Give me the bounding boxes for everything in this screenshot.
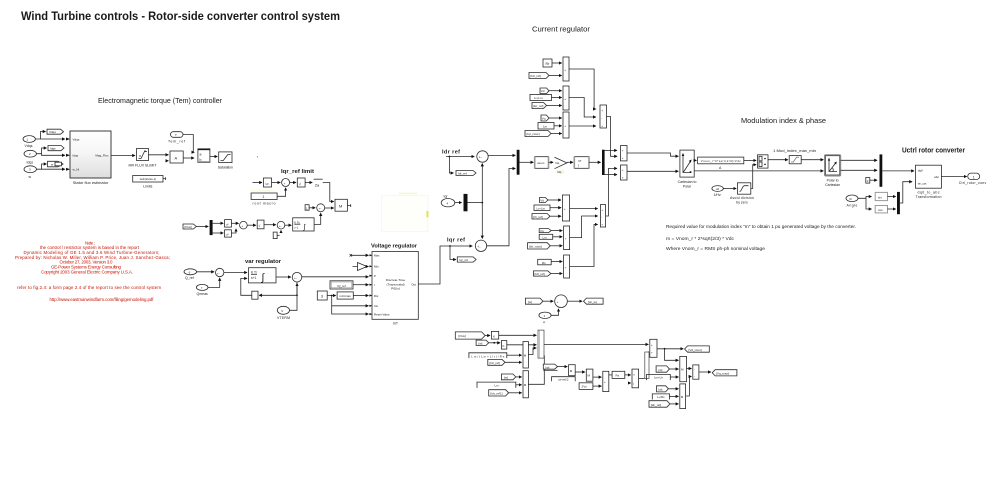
wire [224, 272, 247, 274]
wire sub out to goto [699, 371, 711, 373]
wire [247, 224, 256, 226]
svg-text:+-: +- [217, 272, 220, 276]
wire muxB riser to collector [570, 216, 598, 238]
svg-text:s+1: s+1 [251, 276, 256, 280]
from tag w4 underlined [543, 364, 557, 370]
svg-text:+: + [241, 224, 243, 228]
wire const2 to bar [870, 179, 877, 181]
wire [210, 156, 217, 158]
svg-text:Qmeas: Qmeas [197, 292, 209, 296]
wire [290, 182, 296, 184]
svg-text:Vnom_r*2*sqrt(2/3)/Vdc: Vnom_r*2*sqrt(2/3)/Vdc [701, 159, 742, 163]
from oval Angle [846, 195, 858, 207]
wire [213, 232, 224, 234]
wire branch to goto Vdqs [41, 132, 46, 140]
svg-text:Copyright 2003 General Electri: Copyright 2003 General Electric Company … [41, 270, 133, 275]
mux A [562, 195, 569, 221]
svg-text:+: + [601, 208, 603, 212]
product P4 [586, 369, 593, 381]
from oval VTERM [277, 306, 290, 320]
wire branch to goto Idr_ref [449, 157, 453, 174]
block Stator flux estimator [66, 131, 111, 185]
svg-text:K: K [503, 344, 505, 348]
block PI current [574, 157, 589, 169]
wire [509, 392, 522, 394]
svg-text:+: + [622, 156, 624, 160]
from oval Tem_ref [168, 132, 185, 144]
block ab switch [198, 149, 210, 163]
svg-text:+: + [622, 168, 624, 172]
svg-text:Reset Value: Reset Value [374, 312, 390, 316]
junction dot [449, 156, 451, 158]
from tag Iqr_rotor [525, 131, 551, 137]
wire PtoC out1 [841, 159, 878, 161]
wire up into sum [280, 230, 282, 232]
block A divide [170, 151, 183, 163]
wire [548, 199, 561, 201]
constant 1 [305, 205, 309, 211]
svg-text:Required value for modulation: Required value for modulation index "m" … [666, 224, 856, 229]
block lowpass limits [133, 176, 166, 189]
from oval f [539, 312, 551, 324]
wire long to mux1 [499, 334, 537, 336]
wire to Min block [323, 183, 334, 202]
wire bar to dq0 block [882, 170, 914, 172]
mux1 tall [538, 330, 544, 358]
svg-text:+: + [564, 97, 566, 101]
block MR FLUX SLIMIT [129, 149, 158, 168]
junction dot [449, 245, 451, 247]
wire Mag_Flux [111, 155, 135, 157]
wire S1 out to CtoP [627, 153, 678, 156]
svg-text:P: P [374, 274, 376, 278]
from tag Flux [183, 224, 196, 229]
svg-text:[Vq_rotor]: [Vq_rotor] [716, 372, 729, 376]
svg-text:+: + [651, 351, 653, 355]
mux U2 [563, 86, 569, 110]
constant rotor macro [251, 193, 277, 206]
svg-text:[Iqr_ref]: [Iqr_ref] [533, 104, 544, 108]
svg-text:usum: usum [537, 161, 545, 165]
svg-text:-: - [694, 375, 695, 379]
wire muxC riser to collector [570, 224, 598, 266]
demux bar [210, 220, 213, 235]
wire muxA to collector [570, 208, 598, 210]
wire branch to goto Idqs [42, 148, 47, 154]
from tag Vq2 [539, 229, 551, 233]
svg-text:a: a [200, 152, 202, 156]
wire [516, 384, 522, 386]
svg-text:Idqs: Idqs [27, 161, 34, 165]
wire [549, 90, 562, 92]
from oval 1/Hz [712, 186, 723, 197]
wire [325, 207, 334, 209]
block sub [693, 365, 699, 379]
svg-text:Angle: Angle [847, 203, 858, 207]
svg-text:MR FLUX SLIMIT: MR FLUX SLIMIT [129, 163, 158, 167]
svg-text:+-: +- [294, 276, 297, 280]
constant 2pi3 [579, 383, 593, 390]
svg-text:[Idr_ref]: [Idr_ref] [531, 74, 542, 78]
block feedback gain [252, 291, 258, 299]
svg-text:refer to fig.2.4: a form page: refer to fig.2.4: a form page 2.4 of the… [17, 285, 161, 290]
svg-text:Vdqs: Vdqs [73, 138, 80, 142]
svg-text:dq0: dq0 [918, 169, 923, 173]
block discrete integrator [293, 218, 314, 231]
svg-text:[Idr_ref]: [Idr_ref] [651, 403, 662, 407]
wire [668, 388, 678, 390]
svg-text:Idqs: Idqs [50, 147, 56, 151]
svg-text:+: + [601, 109, 603, 113]
from tag w2 [476, 340, 489, 345]
wire P2 riser [528, 355, 544, 384]
from tag Idr ref b [488, 359, 505, 365]
svg-text:Voltage regulator: Voltage regulator [371, 244, 418, 250]
svg-text:Lr+Lm: Lr+Lm [534, 96, 543, 100]
faint annotation box [250, 190, 428, 231]
svg-text:Lm: Lm [543, 125, 548, 129]
junction dot [296, 294, 298, 296]
svg-text:+: + [564, 207, 566, 211]
wire dq0 out [941, 176, 966, 178]
svg-text:Vq: Vq [542, 117, 546, 121]
svg-text:Vq: Vq [540, 229, 544, 233]
svg-text:Uctrl rotor converter: Uctrl rotor converter [902, 146, 965, 155]
wire mux1 long out [544, 343, 648, 345]
svg-text:Saturation: Saturation [218, 166, 233, 170]
svg-text:Wind Turbine controls - Rotor-: Wind Turbine controls - Rotor-side conve… [21, 11, 340, 23]
gain triangle min [353, 263, 369, 271]
svg-text:-: - [694, 368, 695, 372]
wire [231, 222, 238, 224]
wire [558, 366, 568, 368]
demux bar 2 [602, 150, 605, 175]
wire gain to mux1 [507, 344, 537, 346]
from tag w5 [656, 366, 669, 372]
wire feedback to PI lower input [241, 278, 252, 295]
svg-text:Cartesian to: Cartesian to [678, 180, 697, 184]
constant Lm over Lm+Llr Rs [469, 352, 507, 358]
wire Qmeas up [208, 278, 220, 287]
wire [669, 395, 678, 397]
constant Lm 2 [539, 234, 553, 239]
sum Iqr [475, 240, 486, 251]
wire [543, 300, 553, 302]
block saturation mod [789, 156, 801, 164]
wire [549, 75, 562, 77]
inport Q_ref [184, 269, 197, 280]
wire U2 riser [569, 98, 596, 118]
svg-text:Vdqs: Vdqs [49, 130, 56, 134]
wire [567, 300, 582, 302]
gain Vdc block [698, 157, 744, 170]
svg-text:z-1: z-1 [294, 226, 298, 230]
wire [276, 276, 291, 278]
svg-text:Idr ref: Idr ref [442, 150, 460, 156]
svg-text:1: 1 [973, 176, 975, 180]
wire [552, 62, 562, 64]
constant small [273, 232, 279, 239]
wire branch to goto w [42, 164, 47, 169]
svg-text:1: 1 [263, 195, 265, 199]
svg-text:+: + [565, 237, 567, 241]
wire angle branch 2 [866, 198, 872, 209]
svg-text:by zero: by zero [736, 201, 748, 205]
svg-text:+: + [651, 343, 653, 347]
inport 1 Vdqs [23, 136, 35, 148]
block u^2 [264, 178, 272, 187]
wire avoid div riser to mux m [751, 165, 756, 189]
wire [551, 273, 562, 275]
wire CtoP theta long to PtoC [694, 170, 823, 172]
svg-text:+: + [557, 300, 559, 304]
wire branch down to P5 [665, 349, 679, 361]
svg-text:[w]: [w] [479, 341, 483, 345]
svg-text:+: + [622, 175, 624, 179]
from tag Iqr_ref [532, 103, 547, 109]
svg-text:Polar to: Polar to [827, 179, 839, 183]
svg-text:K: K [493, 334, 495, 338]
from tag Idr_ref3 [534, 271, 551, 276]
svg-text:Lr+Lm: Lr+Lm [537, 207, 546, 211]
wire [551, 230, 562, 232]
wire [550, 215, 561, 217]
inport 2 Idqs [24, 150, 36, 164]
wire into Idr sum [446, 156, 474, 158]
svg-text:VTERM: VTERM [277, 316, 290, 320]
product collector lower [600, 205, 605, 227]
svg-text:Tem_ref: Tem_ref [168, 139, 185, 143]
wire muxT out to goto [657, 348, 683, 350]
wire PtoC out2 [841, 169, 878, 171]
svg-text:[w]: [w] [528, 300, 532, 304]
svg-text:Cartesian: Cartesian [825, 183, 840, 187]
block sqrt [297, 178, 305, 187]
svg-text:T: T [175, 133, 177, 137]
wire [485, 335, 490, 337]
svg-text:Modulation index & phase: Modulation index & phase [741, 116, 826, 125]
wire long to voltage regulator P [302, 276, 369, 278]
wire [593, 385, 602, 387]
block sqrt2 [257, 220, 264, 229]
svg-text:V: V [281, 309, 283, 313]
svg-text:PI: PI [579, 159, 582, 163]
wire [547, 105, 562, 107]
svg-text:min/max: min/max [340, 294, 352, 298]
svg-text:M: M [339, 204, 342, 209]
svg-text:Rs: Rs [542, 261, 546, 265]
svg-text:th: th [850, 197, 853, 201]
wire [549, 117, 562, 119]
wire [609, 374, 612, 376]
block Polar to Cartesian [825, 155, 841, 187]
from tag Vdr [540, 88, 549, 94]
from tag Vd2 [540, 198, 549, 203]
wire P5 to sub [687, 368, 692, 370]
svg-text:[w]: [w] [504, 376, 508, 380]
block gain w [501, 341, 506, 350]
wire [552, 97, 562, 99]
from tag w3 [501, 374, 515, 380]
svg-text:Idr_ref: Idr_ref [458, 171, 467, 175]
svg-text:+: + [284, 181, 286, 185]
svg-text:+: + [601, 124, 603, 128]
constant LmRs [652, 393, 669, 399]
goto tag Idqs [48, 146, 64, 151]
wire [183, 157, 194, 159]
block dq0 to abc [916, 165, 942, 199]
wire [35, 138, 64, 140]
svg-text:Iqr_ref: Iqr_ref [459, 258, 468, 262]
svg-text:[Vr_ref]: [Vr_ref] [533, 215, 543, 219]
svg-text:Vd: Vd [541, 89, 545, 93]
product P1 [523, 342, 528, 369]
wire [197, 271, 214, 273]
from tag Idr ref d [649, 401, 670, 408]
svg-text:Init: Init [374, 304, 378, 308]
wire muxW to muxL [639, 377, 645, 379]
constant Lm b [477, 382, 516, 388]
gain Rs2 [612, 371, 625, 378]
mux U1 [563, 57, 569, 81]
svg-text:L+rRs: L+rRs [657, 395, 665, 399]
svg-text:-: - [560, 304, 561, 308]
block usum [535, 157, 549, 169]
mux L thin [645, 352, 649, 378]
constant Lm [538, 123, 554, 130]
svg-text:Idqs: Idqs [73, 154, 79, 158]
constant Rr [543, 59, 552, 67]
sum block S2 [621, 165, 628, 180]
wire branch to goto Iqr_ref [450, 246, 456, 260]
wire minmax to Rst [353, 295, 368, 297]
svg-text:Rs: Rs [616, 374, 620, 378]
wire mux m to saturation [768, 159, 788, 161]
svg-text:Electromagnetic torque (Tem) c: Electromagnetic torque (Tem) controller [98, 98, 223, 105]
svg-text:+-: +- [319, 207, 322, 211]
svg-text:Dq: Dq [558, 170, 562, 174]
svg-text:Where Vnom_r = RMS ph-ph nom: Where Vnom_r = RMS ph-ph nominal voltage [666, 246, 765, 251]
svg-text:Out: Out [411, 283, 416, 287]
mux T [650, 339, 657, 357]
wire down branch to Init and ResetValue [331, 295, 369, 314]
goto tag Vq_rotor [712, 370, 737, 376]
svg-text:+-: +- [279, 224, 282, 228]
wire [231, 229, 236, 233]
svg-text:InT: InT [393, 322, 399, 326]
svg-text:w_Ni: w_Ni [73, 168, 80, 172]
svg-text:2a: 2a [315, 183, 320, 188]
wire [196, 226, 208, 228]
wire Iqr sum out riser to mux [487, 169, 516, 246]
block Saturation [218, 152, 233, 170]
from tag Vqr [541, 115, 549, 121]
wire Out to Iqr ref sum [418, 246, 472, 284]
sum Idr [477, 151, 488, 162]
sum junction [317, 204, 325, 212]
svg-text:Iqr ref: Iqr ref [447, 238, 465, 244]
svg-text:dq0_to_abc: dq0_to_abc [918, 191, 940, 195]
wire [554, 125, 562, 127]
mux bar uctrl [880, 154, 883, 186]
mux U3 [563, 112, 569, 138]
svg-text:A: A [175, 156, 178, 161]
block IQ_ref [330, 281, 353, 289]
svg-text:(w-wr)/2: (w-wr)/2 [558, 378, 569, 382]
block gain u [491, 331, 498, 339]
svg-text:Limits: Limits [143, 184, 152, 188]
wire [253, 182, 263, 184]
wire [670, 376, 678, 378]
outport 1 [959, 173, 987, 185]
svg-text:Min: Min [374, 265, 379, 269]
svg-text:+: + [622, 148, 624, 152]
svg-text:Stator flux estimator: Stator flux estimator [73, 180, 109, 185]
constant Lr+Lm 2 [534, 205, 550, 211]
mux bar [517, 150, 520, 175]
svg-text:1/Hz: 1/Hz [714, 193, 721, 197]
wire CtoP r out to gain [694, 159, 696, 161]
wire gain to mux m [744, 159, 756, 161]
oval Iqr measured [441, 195, 455, 207]
wire U1 riser to product [569, 69, 596, 109]
from tag Iqr_rotor 2 [528, 243, 551, 249]
svg-text:[Flux]: [Flux] [185, 225, 193, 229]
wire [309, 207, 315, 209]
sum block S1 [621, 146, 628, 161]
wire demux to sum1 [605, 149, 617, 151]
mux B [564, 226, 570, 250]
wire P1 out to mux1 [528, 348, 536, 355]
chevron Dq goto visibility [555, 157, 567, 174]
wire from sum to integrator [285, 224, 292, 226]
wire [455, 202, 462, 204]
svg-text:Transformation: Transformation [916, 195, 942, 199]
mux C [564, 255, 570, 278]
wire stub [629, 382, 631, 384]
wire [551, 261, 562, 263]
svg-text:Lm: Lm [494, 384, 499, 388]
svg-text:cos: cos [878, 208, 883, 212]
svg-text:[w]: [w] [659, 388, 663, 392]
from tag w top [525, 298, 543, 304]
svg-text:Mag_Flux: Mag_Flux [95, 154, 109, 158]
goto tag wr_w [584, 298, 604, 304]
svg-text:Vdqs: Vdqs [25, 144, 33, 148]
feedback wire left [259, 282, 297, 295]
wire w2 to gain [489, 342, 500, 344]
svg-text:PID(z): PID(z) [391, 287, 400, 291]
svg-text:[Idr_ref1]: [Idr_ref1] [491, 392, 503, 396]
sum junction v [292, 272, 302, 282]
goto tag Vdqs [47, 129, 64, 134]
svg-text:Avoid division: Avoid division [730, 196, 754, 200]
svg-text:[w]: [w] [659, 368, 663, 372]
from tag w6 [657, 386, 669, 392]
wire angle branch [858, 197, 872, 199]
demux bar Iqr [464, 194, 468, 211]
constant 3 [317, 291, 327, 300]
wire integrator up to sum [314, 213, 321, 224]
block avoid division by zero [730, 183, 754, 205]
wire demux to sum2 [605, 174, 617, 176]
product P5 [680, 356, 687, 381]
svg-text:+: + [564, 68, 566, 72]
svg-text:Lm: Lm [543, 235, 548, 239]
from tag Idr ref c [489, 390, 509, 396]
sum junction w [555, 295, 568, 308]
product P6 [680, 384, 686, 409]
